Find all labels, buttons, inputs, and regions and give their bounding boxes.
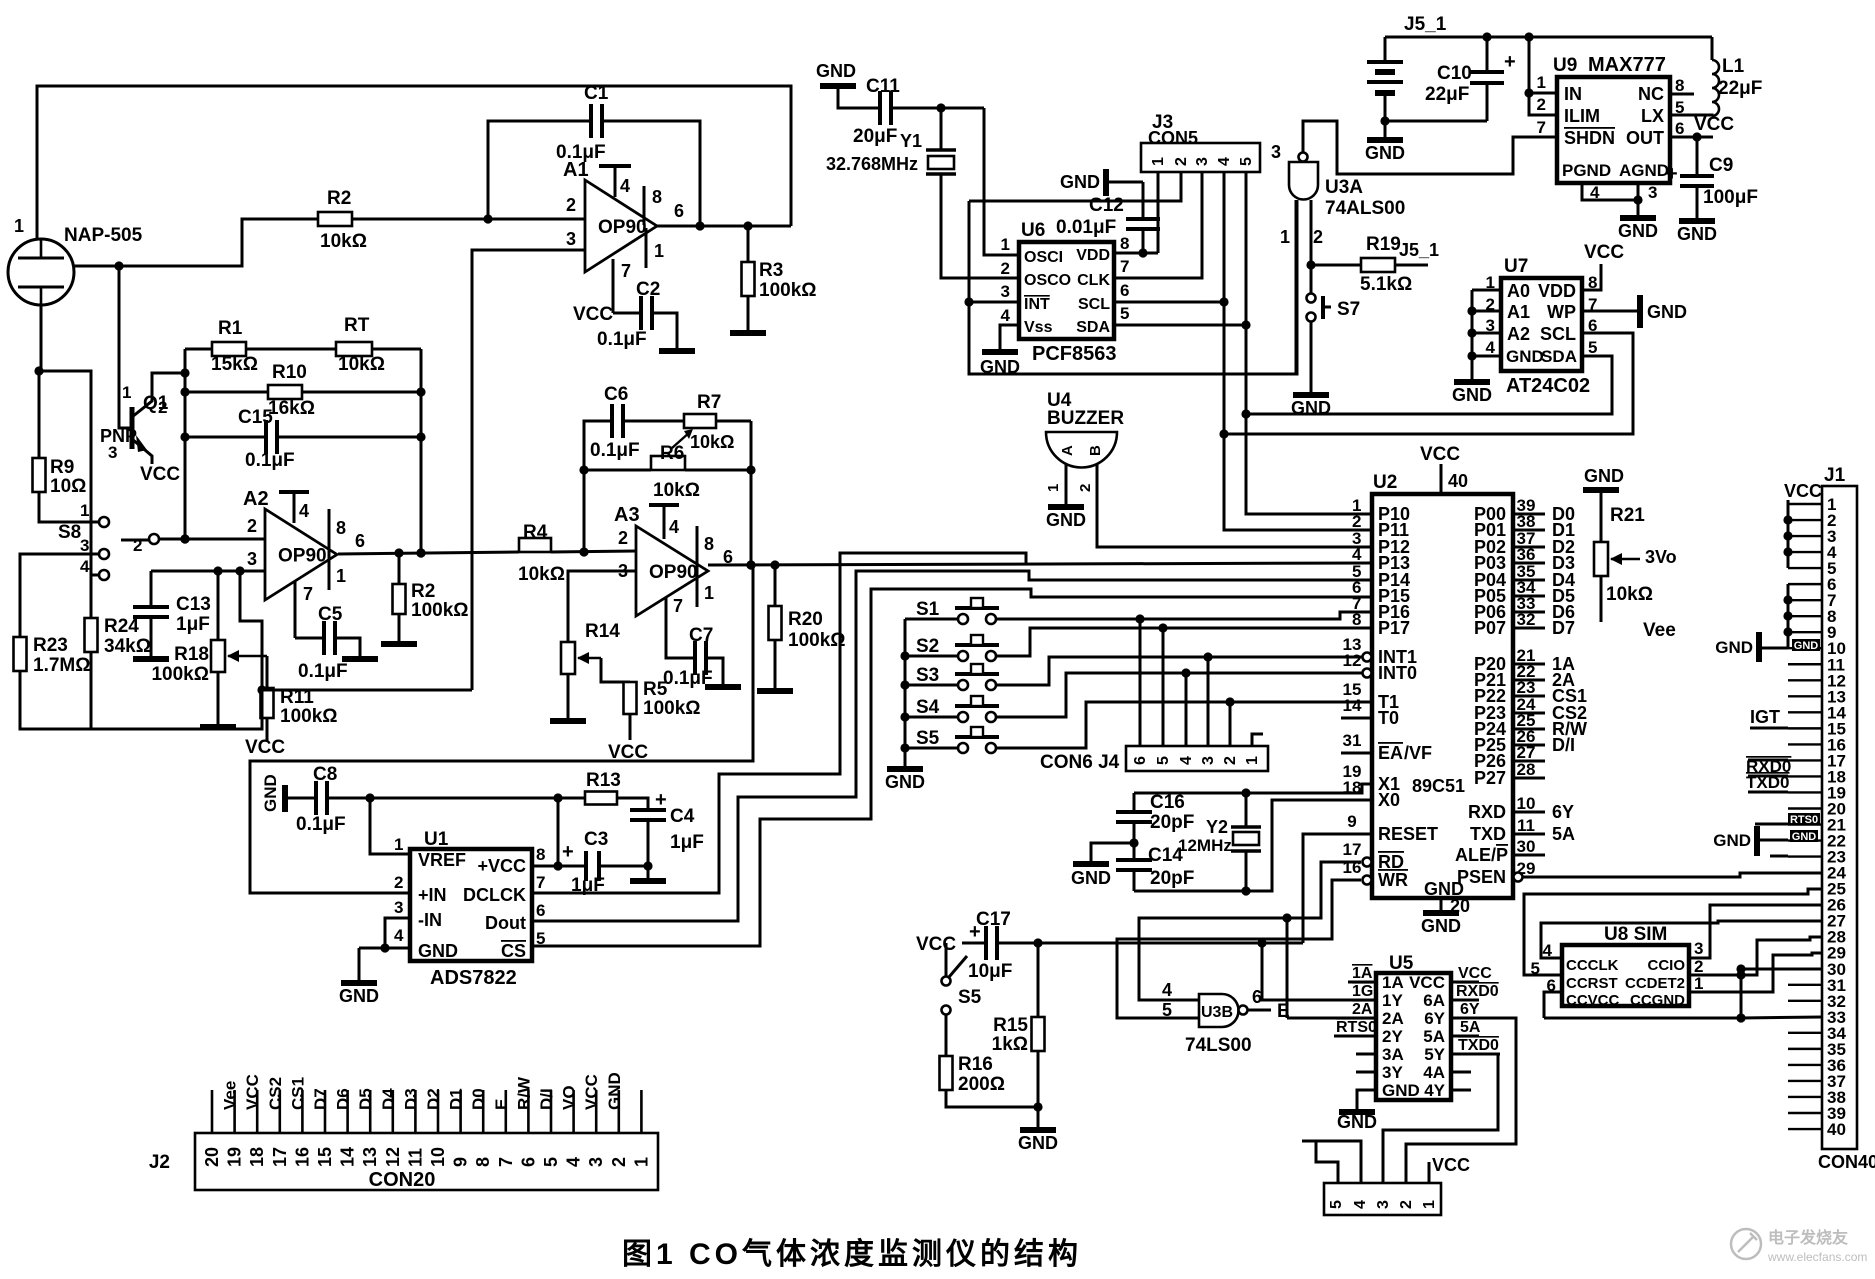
svg-text:1A: 1A (1352, 965, 1373, 982)
svg-text:5A: 5A (1460, 1019, 1481, 1036)
U2 right pin rows P00-P07 (1474, 496, 1575, 638)
svg-text:GND: GND (1792, 831, 1817, 843)
svg-text:A2: A2 (243, 488, 269, 510)
svg-text:32: 32 (1517, 610, 1536, 629)
svg-text:2: 2 (1173, 157, 1190, 166)
svg-text:GND: GND (261, 774, 280, 812)
resistor R4 10k (518, 522, 565, 585)
svg-text:R7: R7 (697, 392, 721, 413)
svg-text:图1 CO气体浓度监测仪的结构: 图1 CO气体浓度监测仪的结构 (622, 1238, 1082, 1271)
svg-text:P17: P17 (1378, 618, 1410, 638)
svg-text:GND: GND (1618, 221, 1658, 241)
svg-text:GND: GND (1584, 466, 1624, 486)
wire A3 feedback rail (584, 421, 612, 552)
svg-text:4: 4 (1162, 980, 1172, 1000)
svg-text:R/W: R/W (514, 1076, 533, 1110)
wire J3 pin4 SCL trunk (1224, 172, 1372, 530)
wire right rail of R1/RT network (420, 349, 423, 553)
svg-text:P07: P07 (1474, 618, 1506, 638)
push switch S5 (916, 727, 999, 753)
wire U3A out to SHDN (1303, 121, 1556, 174)
resistor R24 34k (85, 616, 151, 657)
wire R3 top lead (747, 226, 750, 262)
svg-text:19: 19 (225, 1147, 245, 1167)
wire INT long net (969, 200, 1297, 374)
wire INT trunk (969, 301, 1019, 304)
svg-text:C12: C12 (1089, 195, 1124, 216)
svg-text:CON6 J4: CON6 J4 (1040, 752, 1120, 773)
ground below battery (1365, 140, 1405, 163)
svg-text:VDD: VDD (1076, 247, 1110, 264)
wire R11 to VCC (245, 718, 285, 758)
ground below switch rail (885, 769, 925, 792)
wire R10 row left (185, 391, 268, 394)
junction +VCC pin (553, 861, 562, 870)
wire to ILIM (1529, 93, 1556, 115)
svg-text:1: 1 (394, 835, 403, 854)
wire CCVCC link (1544, 992, 1562, 1018)
svg-text:CON5: CON5 (1148, 128, 1198, 148)
resistor R9 10ohm (33, 457, 87, 497)
svg-text:D3: D3 (401, 1088, 420, 1110)
capacitor C8 0.1uF (296, 764, 346, 835)
resistor R15 1k (1032, 1017, 1045, 1051)
wire WR to U3B (1117, 880, 1361, 1018)
svg-text:C3: C3 (584, 829, 608, 850)
svg-text:VCC: VCC (916, 934, 956, 955)
U7 labels and pins (1486, 256, 1598, 397)
svg-text:0.1μF: 0.1μF (298, 661, 348, 682)
ground below buzzer (1046, 507, 1086, 530)
svg-text:8: 8 (704, 534, 714, 554)
ground above R21 (1583, 466, 1624, 490)
svg-text:5: 5 (541, 1157, 561, 1167)
wire CS net (532, 589, 1372, 946)
svg-text:C6: C6 (604, 384, 628, 405)
wire A2 output (338, 552, 519, 554)
wire U3A input1 (1295, 200, 1298, 374)
svg-text:3: 3 (1375, 1200, 1392, 1209)
svg-text:3: 3 (1001, 282, 1010, 301)
svg-text:0.1μF: 0.1μF (590, 440, 640, 461)
svg-text:4: 4 (1001, 306, 1011, 325)
battery J5_1 (1367, 37, 1403, 137)
capacitor C16 20pF (1116, 792, 1194, 833)
wire TXD0 to conn pin3 (1383, 1054, 1498, 1183)
svg-text:16: 16 (292, 1147, 312, 1167)
svg-text:+: + (562, 841, 574, 863)
svg-text:+IN: +IN (418, 885, 447, 905)
svg-text:R9: R9 (50, 457, 74, 478)
svg-text:18: 18 (247, 1147, 267, 1167)
wire J3 pin1 to VDD (1157, 172, 1160, 253)
wire DCLCK net (532, 553, 1026, 893)
svg-text:12: 12 (1343, 651, 1362, 670)
toggle switch S5 (942, 943, 982, 1015)
svg-text:OP90: OP90 (598, 217, 647, 238)
connector J below U5 (1324, 1183, 1441, 1215)
rotary switch S8 (58, 501, 159, 580)
svg-text:5A: 5A (1552, 824, 1575, 844)
capacitor C7 0.1uF on A3 pin7 (666, 625, 695, 658)
resistor R3 100k (742, 260, 817, 301)
svg-text:GND: GND (1365, 143, 1405, 163)
svg-text:5: 5 (1238, 157, 1255, 166)
svg-text:3: 3 (1200, 756, 1217, 765)
svg-text:VCC: VCC (1694, 114, 1734, 135)
svg-text:OP90: OP90 (278, 546, 327, 567)
svg-text:GND: GND (1647, 302, 1687, 322)
wire A3 output line to U2 P13 (708, 563, 1372, 565)
svg-text:U3B: U3B (1201, 1004, 1233, 1021)
svg-text:J5_1: J5_1 (1404, 14, 1447, 35)
svg-text:GND: GND (1382, 1081, 1420, 1100)
junction pin3 pin4 (380, 943, 389, 952)
svg-text:BUZZER: BUZZER (1047, 408, 1124, 429)
resistor R11 100k (261, 687, 338, 727)
svg-text:S4: S4 (916, 697, 940, 718)
svg-text:6: 6 (674, 201, 684, 221)
ground bar at C8 (282, 785, 288, 812)
svg-text:6: 6 (1675, 119, 1684, 138)
svg-text:GND: GND (1506, 347, 1544, 366)
svg-text:1: 1 (1001, 235, 1010, 254)
svg-text:A: A (1059, 445, 1076, 456)
svg-text:3Vo: 3Vo (1645, 547, 1677, 567)
junctions C17 line (1033, 938, 1266, 947)
svg-text:INT0: INT0 (1378, 663, 1417, 683)
wire C4 gnd stem (647, 866, 650, 878)
wire Dout net (532, 571, 1372, 921)
svg-text:CLK: CLK (1077, 272, 1110, 289)
svg-text:CCVCC: CCVCC (1566, 992, 1620, 1009)
svg-text:1: 1 (654, 241, 664, 261)
svg-text:VDD: VDD (1538, 281, 1576, 301)
wire J1 VCC rail (1784, 481, 1822, 568)
ground below S7 (1291, 395, 1331, 418)
U2 right serial pins (1455, 794, 1575, 887)
svg-text:C11: C11 (866, 76, 900, 97)
J1 pin stubs and numbers (1788, 495, 1846, 1139)
wire S4 to INT0 (996, 673, 1363, 717)
svg-text:2: 2 (1537, 95, 1546, 114)
svg-text:8: 8 (473, 1157, 493, 1167)
junction R19 (1306, 260, 1315, 269)
capacitor C4 1uF (630, 789, 704, 853)
capacitor C12 0.01uF (1142, 182, 1145, 253)
svg-text:TXD: TXD (1470, 824, 1506, 844)
svg-text:C8: C8 (313, 764, 337, 785)
svg-text:PSEN: PSEN (1457, 867, 1506, 887)
junction INT (964, 297, 973, 306)
svg-text:AT24C02: AT24C02 (1506, 375, 1590, 397)
potentiometer R21 10k (1594, 505, 1653, 605)
svg-text:7: 7 (303, 584, 313, 604)
ground below R2b (381, 641, 417, 647)
wire crystal gnd (1091, 843, 1134, 861)
svg-text:3: 3 (1694, 939, 1703, 958)
svg-text:R2: R2 (411, 581, 435, 602)
svg-text:GND: GND (418, 941, 458, 961)
svg-text:2A: 2A (1352, 1001, 1373, 1018)
svg-text:CS2: CS2 (266, 1077, 285, 1110)
wire R3 bottom lead (747, 296, 750, 331)
svg-text:31: 31 (1343, 731, 1362, 750)
junctions on left rail (180, 368, 189, 543)
wire S8 pin4 stub (91, 574, 99, 577)
svg-text:1: 1 (1694, 974, 1703, 993)
resistor R10 16k (268, 362, 315, 419)
svg-text:GND: GND (1421, 916, 1461, 936)
svg-text:1G: 1G (1352, 983, 1373, 1000)
wire A3 out feedback rail (750, 421, 753, 565)
wire VCC pin40 (1420, 444, 1468, 494)
svg-text:RTS0: RTS0 (1790, 814, 1818, 826)
svg-text:U3A: U3A (1325, 177, 1363, 198)
U6 labels and pins (1001, 220, 1130, 365)
wire +VCC drop (532, 798, 558, 866)
svg-text:C9: C9 (1709, 155, 1733, 176)
svg-text:+: + (1504, 51, 1516, 73)
wire S7 to gnd (1310, 322, 1313, 392)
U2 T0 stub (1341, 717, 1372, 720)
U5 right stubs and net labels (1451, 965, 1512, 1090)
svg-text:0.1μF: 0.1μF (597, 329, 647, 350)
wire R16 bottom (946, 1090, 1038, 1107)
connector J2 CON20 body (195, 1133, 658, 1190)
svg-text:A3: A3 (614, 504, 640, 526)
capacitor C10 plates (1425, 63, 1504, 105)
wire AGND gnd stem (1637, 200, 1640, 215)
ground bar at WP (1637, 295, 1643, 328)
wire U1 gnd stem (358, 948, 361, 980)
wire CCCLK to J1 pin27 (1541, 921, 1822, 958)
svg-text:9: 9 (1347, 812, 1356, 831)
push switch S7 (1307, 294, 1361, 322)
svg-text:R2: R2 (327, 188, 351, 209)
ground below R3 (730, 330, 766, 336)
svg-text:J5_1: J5_1 (1399, 240, 1439, 260)
wire C13 bottom (150, 617, 153, 656)
svg-text:PNP: PNP (100, 426, 137, 446)
svg-text:5.1kΩ: 5.1kΩ (1360, 274, 1412, 295)
junction Y2 bottom (1241, 886, 1250, 895)
wire R2 to A1 pin2 (352, 218, 585, 221)
svg-text:4: 4 (1486, 338, 1496, 357)
wire SCL row (1114, 301, 1224, 304)
wire rail to S2 (905, 655, 958, 658)
svg-text:74LS00: 74LS00 (1185, 1035, 1252, 1056)
svg-text:CON20: CON20 (369, 1169, 436, 1191)
capacitor C10 22uF (1487, 37, 1516, 121)
svg-text:8: 8 (1675, 76, 1684, 95)
junctions top trunk (1482, 32, 1533, 41)
svg-text:1Y: 1Y (1382, 991, 1403, 1010)
svg-text:8: 8 (336, 518, 346, 538)
svg-text:VO: VO (560, 1085, 579, 1110)
svg-text:GND: GND (1715, 638, 1753, 657)
U9 labels and pins (1537, 54, 1685, 202)
wire U5 GND (1357, 1090, 1376, 1109)
crystal Y2 12MHz (1178, 793, 1261, 891)
svg-text:U2: U2 (1373, 472, 1397, 493)
svg-text:4: 4 (620, 176, 630, 196)
svg-text:100kΩ: 100kΩ (280, 706, 338, 727)
svg-text:0.1μF: 0.1μF (296, 814, 346, 835)
junctions on A2 pin3 row (213, 566, 244, 575)
svg-text:TXD0: TXD0 (1458, 1037, 1499, 1054)
wire R24 bottom (90, 652, 93, 729)
wire conn pin4 run (1302, 1141, 1361, 1183)
svg-text:SDA: SDA (1541, 347, 1577, 366)
buzzer U4 (1045, 390, 1124, 492)
junction node C1-output (695, 221, 704, 230)
svg-text:1.7MΩ: 1.7MΩ (33, 655, 90, 676)
wire C13 top (150, 571, 153, 607)
nand gate U3B 74LS00 (1162, 980, 1252, 1056)
J1 pin22 gnd (1713, 826, 1818, 856)
wire S5 to R16 (945, 1015, 948, 1056)
junction node below sensor (34, 366, 43, 375)
wire U5 1G net (1262, 943, 1348, 1000)
wire PSEN to J1 pin24 (1523, 873, 1822, 877)
svg-text:12: 12 (383, 1147, 403, 1167)
svg-text:10: 10 (1517, 794, 1536, 813)
svg-text:S7: S7 (1337, 299, 1360, 320)
svg-text:4: 4 (394, 926, 404, 945)
wire conn pin1 VCC (1429, 1155, 1470, 1183)
wire J4 pin3 up (1207, 657, 1210, 746)
wire C17 to RESET (997, 942, 1303, 945)
wire X1 net (1134, 784, 1372, 793)
wire R15 top (1037, 943, 1040, 1017)
wire NC stub (1670, 93, 1694, 96)
junction VDD C12 (1138, 248, 1147, 257)
svg-text:LX: LX (1641, 106, 1664, 126)
wire J3 pin5 SDA trunk (1246, 172, 1372, 514)
push switch S1 (916, 598, 999, 624)
wire U3B output E (1248, 987, 1290, 1022)
wire C7 to ground (706, 658, 723, 684)
IC U8 SIM (1562, 945, 1689, 1006)
J2 labels (149, 1152, 435, 1191)
capacitor C5 0.1uF on A2 pin7 (295, 637, 324, 640)
svg-text:5Y: 5Y (1424, 1045, 1445, 1064)
wire conn pin5 run (1302, 1141, 1338, 1183)
ground below R15 (1018, 1130, 1058, 1153)
svg-text:P27: P27 (1474, 768, 1506, 788)
svg-text:U1: U1 (424, 829, 449, 850)
svg-text:2: 2 (1001, 259, 1010, 278)
svg-text:2A: 2A (1382, 1009, 1404, 1028)
svg-text:4A: 4A (1423, 1063, 1445, 1082)
wire U3A input2 (1310, 200, 1313, 293)
wire C1 feedback right leg (602, 121, 700, 226)
svg-text:R10: R10 (272, 362, 307, 383)
connector J4 CON6 body (1126, 746, 1268, 771)
resistor R23 1.7M (14, 635, 91, 676)
svg-text:11: 11 (405, 1148, 425, 1167)
wire J1 GND rail (1787, 584, 1790, 648)
svg-text:6: 6 (536, 901, 545, 920)
wire rail to S5 (905, 747, 958, 750)
svg-text:13: 13 (360, 1147, 380, 1167)
svg-text:14: 14 (338, 1147, 358, 1167)
resistor RT 10k (336, 315, 385, 375)
ground below C13 (133, 656, 169, 662)
U8 labels (1531, 924, 1704, 1009)
svg-text:5A: 5A (1423, 1027, 1445, 1046)
svg-text:R3: R3 (759, 260, 783, 281)
svg-text:4: 4 (80, 557, 90, 576)
svg-text:GND: GND (1452, 385, 1492, 405)
svg-text:0.01μF: 0.01μF (1056, 217, 1116, 238)
resistor R2 100k at A2 out (393, 581, 469, 621)
wire RT row right (372, 348, 421, 351)
wire U7 address pins rail (1472, 290, 1501, 379)
ground below R18 (200, 724, 236, 730)
svg-text:1: 1 (1537, 73, 1546, 92)
crystal Y1 32.768MHz (826, 108, 956, 174)
junctions switch rail (900, 651, 909, 752)
junction SCL (1219, 297, 1228, 438)
wire left rail of R1/RT network (184, 349, 187, 539)
svg-text:C4: C4 (670, 806, 695, 827)
wire A3 out to U1 +IN loop (751, 564, 753, 567)
svg-text:IGT: IGT (1750, 707, 1780, 727)
wire battery to C10 bottom (1385, 120, 1487, 123)
svg-text:WP: WP (1547, 302, 1576, 322)
svg-text:3: 3 (586, 1157, 606, 1167)
wire CCRST to J1 pin25 (1524, 889, 1822, 975)
junction Y2 top (1241, 788, 1250, 797)
push switch S4 (916, 696, 999, 722)
svg-text:20μF: 20μF (853, 126, 897, 147)
svg-text:PGND: PGND (1562, 161, 1611, 180)
wire 6Y to conn pin2 (1406, 1018, 1516, 1183)
svg-text:NAP-505: NAP-505 (64, 225, 143, 246)
svg-text:GND: GND (1677, 224, 1717, 244)
svg-text:8: 8 (652, 187, 662, 207)
svg-text:2: 2 (247, 516, 257, 536)
wire trunk to U9 IN (1529, 37, 1556, 93)
capacitor C12 plates (1056, 195, 1160, 238)
svg-text:GND: GND (1291, 398, 1331, 418)
resistor R19 5.1k (1360, 234, 1412, 295)
U1 labels and pins (394, 829, 545, 989)
svg-text:C1: C1 (584, 83, 609, 104)
J2 pin lines and rotated labels (202, 1072, 651, 1167)
svg-text:+: + (655, 789, 667, 811)
svg-text:VCC: VCC (1584, 242, 1624, 263)
svg-text:Vee: Vee (221, 1081, 240, 1110)
svg-text:GND: GND (1071, 868, 1111, 888)
ground below U5 (1337, 1112, 1377, 1132)
op-amp A1 pins (566, 166, 684, 313)
svg-text:INT: INT (1024, 296, 1050, 313)
svg-text:28: 28 (1517, 760, 1536, 779)
svg-text:10kΩ: 10kΩ (653, 480, 700, 501)
svg-text:CS1: CS1 (288, 1077, 307, 1110)
svg-text:6: 6 (1120, 281, 1129, 300)
wire R10 row right (302, 391, 421, 394)
svg-text:T0: T0 (1378, 708, 1399, 728)
nand gate U3A 74ALS00 (1271, 142, 1405, 247)
wire R19 to J5_1 (1395, 240, 1439, 265)
capacitor C7 plates (663, 625, 713, 689)
wire pin30-pin33 vertical (1740, 969, 1743, 1018)
svg-text:22μF: 22μF (1718, 78, 1762, 99)
